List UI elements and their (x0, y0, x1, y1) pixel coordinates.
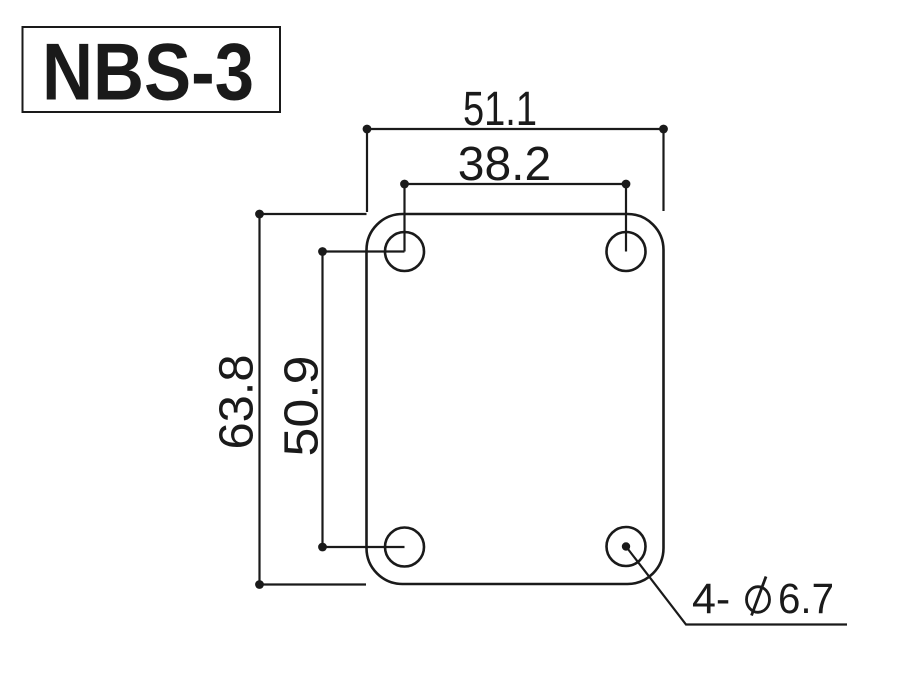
extension line 38.2 left (403, 184, 405, 252)
callout phi symbol slash (752, 577, 767, 616)
dimension 51.1 left dot (363, 125, 372, 134)
svg-text:51.1: 51.1 (463, 83, 537, 136)
svg-text:38.2: 38.2 (458, 138, 551, 191)
svg-text:50.9: 50.9 (276, 356, 329, 457)
part label box NBS-3 (23, 27, 281, 112)
screw hole top-left (385, 232, 424, 271)
screw hole bottom-left (385, 528, 424, 567)
screw hole top-right (607, 232, 646, 271)
extension line 38.2 right (625, 184, 627, 252)
callout phi symbol loop (747, 587, 770, 613)
redraw extension line segment over top-left hole (385, 250, 405, 252)
dimension 63.8 bottom dot (255, 580, 264, 589)
dimension line 50.9 (321, 252, 323, 548)
dimension 51.1 right dot (659, 125, 668, 134)
svg-text:63.8: 63.8 (211, 355, 264, 450)
extension line 51.1 left (366, 129, 368, 212)
extension line 50.9 bottom (323, 546, 405, 548)
leader line to hole callout (626, 547, 847, 625)
screw hole bottom-right (607, 527, 646, 566)
dimension line 63.8 (258, 214, 260, 585)
svg-text:4-: 4- (692, 575, 730, 623)
dimension line 51.1 (367, 128, 664, 130)
dimension line 38.2 (405, 183, 627, 185)
dimension 50.9 bottom dot (318, 543, 327, 552)
svg-text:6.7: 6.7 (778, 575, 834, 623)
extension line 51.1 right (662, 129, 664, 211)
hole centre dot bottom-right (622, 542, 630, 550)
dimension 38.2 right dot (622, 180, 631, 189)
dimension 38.2 left dot (400, 180, 409, 189)
dimension 50.9 top dot (318, 247, 327, 256)
svg-text:NBS-3: NBS-3 (42, 28, 254, 118)
dimension 63.8 top dot (255, 210, 264, 219)
extension line 50.9 top (323, 250, 405, 252)
extension line 63.8 top (260, 213, 367, 215)
extension line 63.8 bottom (260, 583, 367, 585)
redraw extension line segment over top-right hole (625, 232, 627, 252)
redraw extension line segment over bottom-left hole (385, 546, 405, 548)
plate outline (367, 214, 664, 584)
